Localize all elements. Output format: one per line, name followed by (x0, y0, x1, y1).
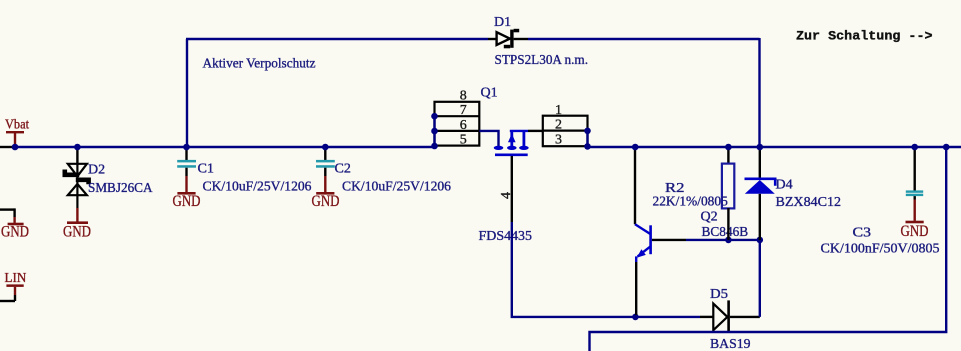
ground GND below C2 (312, 192, 340, 210)
svg-text:GND: GND (901, 223, 929, 240)
wire D1 anode pin (488, 38, 497, 40)
node R2 bottom / base junction (725, 237, 732, 244)
ground GND below D2 (63, 208, 91, 241)
node C2 rail junction (322, 144, 329, 151)
svg-text:22K/1%/0805: 22K/1%/0805 (653, 195, 728, 210)
wire Q1 drain pins along box left edge (433, 116, 435, 146)
svg-text:Q2: Q2 (701, 210, 718, 225)
svg-text:6: 6 (460, 118, 467, 133)
node Q1 pin 6 junction (431, 128, 438, 135)
wire Vbat rail pin stub from left edge (0, 146, 12, 148)
mosfet Q1 pin box pins 8/7/6/5 (435, 102, 480, 146)
supply Vbat (5, 118, 29, 148)
wire D5 cathode pin (730, 316, 760, 318)
svg-text:C3: C3 (853, 226, 872, 241)
wire Q1 drain box to mosfet symbol (479, 131, 498, 147)
svg-text:GND: GND (312, 193, 340, 210)
supply LIN with wire stub to left edge (0, 271, 26, 301)
node Vbat rail junction (12, 144, 19, 151)
mosfet Q1 pin box pins 1/2/3 (543, 116, 588, 147)
wire Q2 base net to R2/D4 (686, 239, 760, 241)
svg-text:C2: C2 (335, 162, 351, 177)
node gate / D5 anode / Q2 emitter junction (632, 314, 639, 321)
svg-text:GND: GND (1, 223, 29, 240)
svg-text:D4: D4 (776, 178, 793, 193)
node Q1 pin 7 junction (431, 113, 438, 120)
wire top loop horizontal to D1 (186, 38, 488, 40)
diode D5 (713, 300, 730, 333)
svg-text:D5: D5 (710, 287, 728, 302)
node output net rail junction (943, 144, 950, 151)
svg-text:LIN: LIN (5, 271, 27, 286)
node C3 rail junction (911, 144, 918, 151)
capacitor C1 (177, 147, 196, 192)
wire gate net down and across to Q2 emitter node (512, 222, 636, 317)
svg-text:FDS4435: FDS4435 (479, 229, 533, 244)
node D2 rail junction (74, 144, 81, 151)
svg-text:GND: GND (173, 193, 201, 210)
node Q1 pin 5 junction (431, 143, 438, 150)
wire top loop horizontal right of D1 (528, 38, 760, 40)
capacitor C2 (316, 147, 335, 192)
node D4 rail junction (757, 144, 764, 151)
svg-text:3: 3 (555, 133, 562, 148)
svg-text:STPS2L30A n.m.: STPS2L30A n.m. (495, 53, 589, 68)
mosfet Q1 symbol (p-channel with body diode arrow) (494, 131, 529, 155)
diode D1 (schottky) (497, 29, 520, 49)
svg-text:CK/100nF/50V/0805: CK/100nF/50V/0805 (821, 242, 940, 257)
wire top loop right vertical down to rail (758, 38, 760, 147)
svg-text:4: 4 (499, 192, 514, 199)
svg-text:D2: D2 (88, 163, 105, 178)
node Q1 pin 2 junction (584, 128, 591, 135)
wire Vbat rail: Vbat junction to Q1 left pin box (12, 146, 435, 148)
svg-text:BAS19: BAS19 (710, 337, 751, 351)
svg-text:8: 8 (460, 89, 467, 104)
ground GND below C1 (173, 192, 201, 210)
capacitor C3 (906, 147, 923, 221)
node D4 anode / base junction (757, 237, 764, 244)
transistor Q2 (npn) (635, 147, 686, 315)
svg-text:CK/10uF/25V/1206: CK/10uF/25V/1206 (342, 180, 451, 195)
wire top loop left vertical (186, 39, 188, 147)
wire D5 cathode up to base node (759, 240, 761, 317)
svg-text:1: 1 (555, 103, 562, 118)
wire D5 anode pin (700, 316, 713, 318)
diode D2 (bidirectional TVS) (65, 147, 89, 208)
wire output net bottom loop to rail (590, 147, 947, 351)
wire D1 cathode pin (514, 38, 528, 40)
node Q2 collector rail junction (632, 144, 639, 151)
svg-text:Vbat: Vbat (5, 118, 29, 133)
svg-text:Q1: Q1 (481, 86, 498, 101)
svg-text:Zur Schaltung -->: Zur Schaltung --> (796, 29, 933, 44)
diode D4 (zener) (745, 147, 776, 240)
svg-text:CK/10uF/25V/1206: CK/10uF/25V/1206 (203, 180, 312, 195)
svg-text:BC846B: BC846B (702, 225, 749, 240)
wire mosfet to Q1 source box pin (528, 130, 543, 132)
wire gate net to D5 anode (635, 316, 700, 318)
ground GND below C3 (901, 221, 929, 240)
svg-text:D1: D1 (494, 15, 511, 30)
resistor R2 (722, 147, 734, 240)
node R2 rail junction (725, 144, 732, 151)
svg-text:GND: GND (63, 224, 91, 241)
wire Q1 gate pin 4 (511, 156, 513, 222)
svg-text:SMBJ26CA: SMBJ26CA (88, 181, 153, 196)
wire Q1 pin2 to pin3 along box edge (586, 131, 588, 147)
svg-text:7: 7 (460, 103, 467, 118)
node C1 rail junction (183, 144, 190, 151)
wire Vbat rail: Q1 right pin box to right edge (588, 146, 961, 148)
svg-text:5: 5 (460, 133, 467, 148)
svg-text:2: 2 (555, 118, 562, 133)
node Q1 pin 3 junction (584, 143, 591, 150)
ground GND at left edge with wire stub (0, 208, 29, 240)
svg-text:BZX84C12: BZX84C12 (776, 195, 842, 210)
svg-text:C1: C1 (198, 162, 215, 177)
svg-text:Aktiver Verpolschutz: Aktiver Verpolschutz (203, 57, 316, 72)
